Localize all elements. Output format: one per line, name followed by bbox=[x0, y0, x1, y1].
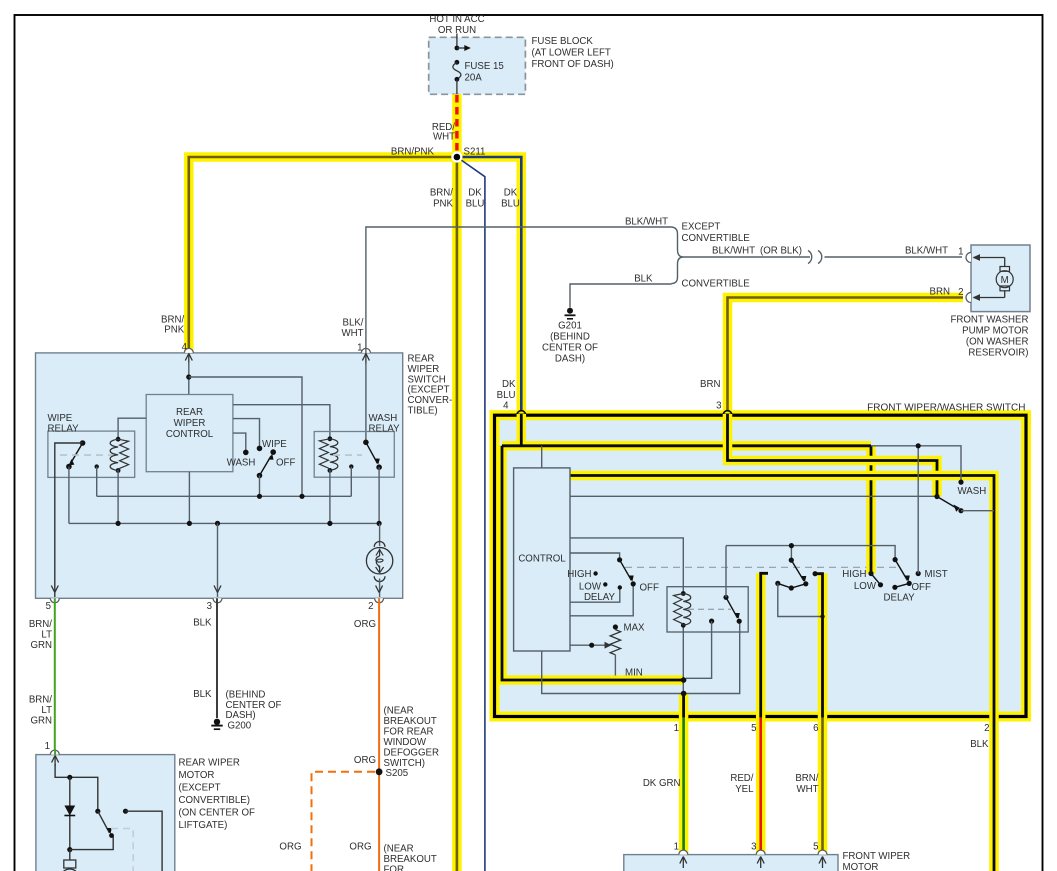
wash relay switch contact bbox=[363, 440, 369, 446]
svg-text:BLU: BLU bbox=[501, 198, 520, 209]
svg-text:WHT: WHT bbox=[433, 132, 455, 143]
svg-text:WHT: WHT bbox=[796, 784, 818, 795]
svg-text:BREAKOUT: BREAKOUT bbox=[384, 854, 437, 865]
svg-text:FUSE BLOCK: FUSE BLOCK bbox=[532, 36, 594, 47]
wipe relay mechanical link (dashed) bbox=[60, 454, 113, 456]
wire pin6 BRN/WHT highlighted bbox=[818, 573, 828, 855]
wire control left to wipe relay coil bbox=[118, 418, 146, 439]
wire BRN/PNK highlighted (S211 left, down to rear switch pin 4) bbox=[189, 157, 457, 352]
svg-text:(OR BLK): (OR BLK) bbox=[760, 246, 802, 257]
svg-text:ORG: ORG bbox=[349, 842, 371, 853]
svg-text:GRN: GRN bbox=[30, 716, 52, 727]
wash switch blade bbox=[934, 494, 939, 499]
node pin4 branch bbox=[186, 374, 191, 379]
svg-text:5: 5 bbox=[813, 842, 818, 853]
wire pin 4 down to control bbox=[188, 362, 190, 395]
WIPE / WASH / OFF switch contacts bbox=[243, 450, 249, 456]
lamp (switch illumination) bbox=[374, 542, 385, 547]
svg-text:(BEHIND: (BEHIND bbox=[226, 690, 266, 701]
front wiper motor box bbox=[624, 855, 838, 871]
svg-text:TIBLE): TIBLE) bbox=[408, 406, 438, 417]
rear motor M symbol (clipped at page bottom) bbox=[69, 850, 71, 860]
svg-text:WIPER: WIPER bbox=[174, 418, 206, 429]
svg-text:MAX: MAX bbox=[624, 623, 646, 634]
in-line connector bbox=[808, 251, 812, 264]
middle (park) switch bbox=[789, 558, 794, 563]
wire pin1 DK GRN highlighted: junction to front wiper motor bbox=[679, 694, 689, 856]
wire pin2 BLK highlighted: from control right across and down out of box bbox=[570, 476, 994, 871]
rear wiper switch box bbox=[36, 353, 403, 598]
front washer pump motor box bbox=[971, 245, 1030, 312]
svg-text:3: 3 bbox=[751, 842, 756, 853]
right main switch cluster bbox=[868, 571, 873, 576]
wire control right to WASH contact bbox=[233, 433, 246, 452]
wash relay coil bbox=[328, 436, 333, 441]
svg-text:MOTOR: MOTOR bbox=[179, 770, 215, 781]
svg-text:FRONT WIPER/WASHER SWITCH: FRONT WIPER/WASHER SWITCH bbox=[867, 403, 1025, 414]
pin 6 bump bbox=[818, 717, 827, 722]
wire common feed (relay contact / middle pivot / right pivot) bbox=[726, 546, 895, 598]
svg-text:WASH: WASH bbox=[227, 458, 256, 469]
wire control top to pin4 line bbox=[541, 446, 543, 468]
svg-text:CONTROL: CONTROL bbox=[166, 429, 214, 440]
svg-text:BREAKOUT: BREAKOUT bbox=[384, 716, 437, 727]
pin 3 exit arc bbox=[213, 598, 222, 603]
svg-text:RED/: RED/ bbox=[730, 773, 753, 784]
svg-text:(ON CENTER OF: (ON CENTER OF bbox=[179, 808, 256, 819]
pin 1 connector arc bbox=[966, 253, 971, 263]
wire BLK rear switch pin3 to G200 bbox=[216, 598, 218, 718]
svg-text:2: 2 bbox=[368, 601, 373, 612]
svg-text:BLK: BLK bbox=[193, 689, 212, 700]
svg-text:BRN/: BRN/ bbox=[29, 619, 52, 630]
svg-text:4: 4 bbox=[503, 401, 509, 412]
splice S211 bbox=[451, 151, 462, 162]
svg-text:FRONT WASHER: FRONT WASHER bbox=[950, 315, 1028, 326]
svg-text:OFF: OFF bbox=[912, 582, 931, 593]
svg-text:SWITCH: SWITCH bbox=[408, 374, 446, 385]
svg-text:LIFTGATE): LIFTGATE) bbox=[179, 820, 228, 831]
wire ORG dashed branch from S205 bbox=[312, 772, 376, 871]
interval relay switch bbox=[723, 595, 728, 600]
wipe relay blade bbox=[70, 443, 82, 464]
pin 4 bump bbox=[517, 411, 526, 416]
svg-text:WHT: WHT bbox=[341, 328, 363, 339]
svg-text:HIGH: HIGH bbox=[842, 569, 866, 580]
svg-text:OFF: OFF bbox=[640, 583, 659, 594]
front wiper/washer switch box bbox=[495, 415, 1027, 716]
svg-text:BLU: BLU bbox=[466, 198, 485, 209]
svg-text:BLK/WHT: BLK/WHT bbox=[905, 246, 948, 257]
svg-text:REAR WIPER: REAR WIPER bbox=[179, 758, 240, 769]
wire wash coil bottom to H2 bbox=[329, 470, 331, 523]
wire control bottom loop to interval relay blade contact bbox=[542, 621, 740, 693]
svg-text:EXCEPT: EXCEPT bbox=[682, 222, 721, 233]
svg-text:(EXCEPT: (EXCEPT bbox=[408, 385, 450, 396]
wire control to delay switch pivot bbox=[570, 553, 620, 560]
svg-text:ORG: ORG bbox=[354, 619, 376, 630]
rear wiper control box bbox=[146, 395, 233, 472]
svg-text:20A: 20A bbox=[465, 73, 483, 84]
svg-text:BRN/PNK: BRN/PNK bbox=[391, 147, 435, 158]
svg-text:DELAY: DELAY bbox=[584, 592, 616, 603]
svg-text:DK GRN: DK GRN bbox=[643, 778, 681, 789]
svg-text:CONVERTIBLE: CONVERTIBLE bbox=[682, 233, 751, 244]
node junctions on pin1 drop bbox=[682, 625, 684, 693]
pin 2 connector arc bbox=[966, 293, 971, 303]
ground G200 bbox=[214, 719, 220, 725]
svg-text:DEFOGGER: DEFOGGER bbox=[384, 748, 439, 759]
brace joining EXCEPT CONVERTIBLE / CONVERTIBLE bbox=[672, 227, 684, 284]
pin 3 exit arrow bbox=[214, 586, 221, 593]
wire control to DELAY contact bbox=[570, 588, 620, 603]
svg-text:BRN: BRN bbox=[700, 379, 720, 390]
svg-text:RESERVOIR): RESERVOIR) bbox=[968, 348, 1028, 359]
svg-text:BLU: BLU bbox=[497, 390, 516, 401]
pin 2 bump bbox=[990, 717, 999, 722]
svg-text:BLK/WHT: BLK/WHT bbox=[712, 246, 755, 257]
wire pin 1 down to wash relay contact bbox=[365, 362, 367, 442]
washer motor internal wiring pin2 bbox=[974, 297, 1005, 299]
diode branch bbox=[69, 777, 71, 849]
svg-text:BRN/: BRN/ bbox=[430, 187, 453, 198]
wire BRN highlighted (washer pump pin 2 left, down to front switch pin 3) bbox=[728, 298, 964, 446]
svg-text:3: 3 bbox=[207, 601, 212, 612]
interval relay mechanical link dashed bbox=[688, 608, 731, 610]
pin 5 bump bbox=[756, 717, 765, 722]
svg-text:DELAY: DELAY bbox=[884, 593, 916, 604]
svg-text:1: 1 bbox=[674, 723, 679, 734]
svg-text:BRN/: BRN/ bbox=[29, 695, 52, 706]
wire relay aux contact to pin1 junction bbox=[686, 621, 712, 678]
pin 1 entry arrow bbox=[365, 355, 367, 364]
svg-text:CONVERTIBLE): CONVERTIBLE) bbox=[179, 795, 250, 806]
svg-text:FRONT OF DASH): FRONT OF DASH) bbox=[532, 59, 614, 70]
wipe relay coil bbox=[116, 437, 121, 442]
delay switch (left cluster) bbox=[617, 557, 622, 562]
wire H1 bbox=[97, 495, 352, 497]
svg-text:LT: LT bbox=[41, 705, 52, 716]
svg-text:M: M bbox=[1001, 275, 1009, 286]
pin 1 entry arrow bbox=[54, 757, 56, 766]
svg-text:2: 2 bbox=[984, 723, 989, 734]
wire pin5 RED/YEL highlighted bbox=[756, 573, 766, 855]
svg-text:REAR: REAR bbox=[408, 354, 435, 365]
pin 1 entry arc bbox=[50, 750, 59, 755]
svg-text:BRN: BRN bbox=[930, 287, 950, 298]
svg-text:1: 1 bbox=[45, 741, 50, 752]
svg-text:1: 1 bbox=[958, 247, 963, 258]
mode switch blade with arrow bbox=[257, 473, 263, 479]
svg-text:FRONT WIPER: FRONT WIPER bbox=[843, 851, 911, 862]
svg-text:(NEAR: (NEAR bbox=[384, 706, 414, 717]
svg-text:BLK/WHT: BLK/WHT bbox=[625, 217, 668, 228]
svg-text:CONTROL: CONTROL bbox=[518, 554, 566, 565]
wire H2 bbox=[69, 522, 379, 524]
interval relay coil bbox=[681, 591, 686, 596]
svg-text:WASH: WASH bbox=[958, 486, 987, 497]
svg-text:WINDOW: WINDOW bbox=[384, 737, 427, 748]
svg-text:PNK: PNK bbox=[164, 325, 184, 336]
svg-text:DASH): DASH) bbox=[555, 354, 585, 365]
svg-text:REAR: REAR bbox=[176, 407, 203, 418]
wire H2 to pin 3 exit bbox=[217, 523, 219, 597]
svg-text:OFF: OFF bbox=[276, 458, 295, 469]
interval wiper relay box bbox=[667, 587, 748, 632]
svg-text:FOR REAR: FOR REAR bbox=[384, 727, 434, 738]
svg-text:SWITCH): SWITCH) bbox=[384, 758, 425, 769]
svg-text:DK: DK bbox=[504, 187, 518, 198]
wire control to interval relay coil bbox=[570, 538, 683, 594]
svg-text:(NEAR: (NEAR bbox=[384, 844, 414, 855]
pin 5 exit arrow bbox=[51, 586, 58, 593]
svg-text:RELAY: RELAY bbox=[369, 423, 401, 434]
wash relay aux contact C' bbox=[349, 464, 353, 468]
wire DK BLU thin (S211 diagonal down to bottom edge) bbox=[457, 157, 485, 871]
svg-text:FOR: FOR bbox=[384, 865, 404, 871]
pin 1 bump bbox=[679, 717, 688, 722]
svg-text:2: 2 bbox=[958, 287, 963, 298]
wire DK BLU highlighted (S211 right then down to front switch pin 4) bbox=[457, 157, 521, 446]
svg-text:1: 1 bbox=[674, 842, 679, 853]
svg-text:ORG: ORG bbox=[354, 755, 376, 766]
svg-text:HOT IN ACC: HOT IN ACC bbox=[429, 14, 484, 25]
wire pin4 feed highlighted: down, across, left loop, bottom, to pin 1 bbox=[502, 414, 871, 680]
svg-text:(BEHIND: (BEHIND bbox=[550, 332, 590, 343]
wire RED/WHT highlighted (fuse to S211) bbox=[452, 94, 462, 157]
motor M symbol bbox=[1000, 267, 1010, 272]
svg-text:BLK/: BLK/ bbox=[342, 318, 363, 329]
pin 3 entry arc bbox=[756, 850, 765, 855]
pin 5 entry arc bbox=[818, 850, 827, 855]
wash relay box bbox=[314, 432, 394, 478]
dashed mechanical linkage across switches bbox=[625, 566, 896, 568]
wire control bottom to H2 bbox=[188, 472, 190, 524]
wire control to OFF contact bbox=[570, 584, 633, 616]
delay pot MAX/MIN bbox=[613, 624, 618, 629]
svg-text:DK: DK bbox=[502, 379, 516, 390]
svg-text:WIPE: WIPE bbox=[262, 439, 287, 450]
wire blade pivot down to H1 bbox=[259, 476, 261, 497]
svg-text:S205: S205 bbox=[386, 768, 409, 779]
svg-text:5: 5 bbox=[751, 723, 756, 734]
wash relay blade with arrow bbox=[366, 442, 378, 463]
wire MIST / WASH feed bbox=[871, 446, 961, 574]
svg-text:BLK: BLK bbox=[634, 274, 653, 285]
wash relay mechanical link (dashed) bbox=[333, 454, 362, 456]
svg-text:S211: S211 bbox=[464, 147, 486, 158]
pin 2 exit arc bbox=[375, 598, 384, 603]
svg-text:HIGH: HIGH bbox=[567, 569, 591, 580]
wipe relay contact A and wire to pin 5 bbox=[80, 440, 86, 446]
wire BLK/WHT (rear switch pin 1 up and right to brace) bbox=[366, 227, 672, 352]
svg-text:BRN/: BRN/ bbox=[795, 773, 818, 784]
svg-text:(AT LOWER LEFT: (AT LOWER LEFT bbox=[532, 48, 611, 59]
fuse block box bbox=[429, 37, 526, 94]
svg-text:BLK: BLK bbox=[193, 618, 212, 629]
control box bbox=[514, 468, 570, 651]
wire fuse to box edge bbox=[456, 79, 458, 94]
svg-text:ORG: ORG bbox=[279, 842, 301, 853]
wire BLK/WHT (OR BLK) combined to washer pump pin 1 bbox=[684, 256, 811, 258]
pin 5 exit arc bbox=[50, 598, 59, 603]
pin 2 exit arrow bbox=[376, 586, 383, 593]
wire pin3 BRN highlighted inside: down, right, down to wash pivot bbox=[728, 414, 938, 497]
svg-text:WIPER: WIPER bbox=[408, 364, 440, 375]
svg-text:(EXCEPT: (EXCEPT bbox=[179, 783, 221, 794]
wire BRN/PNK highlighted (S211 down to bottom edge) bbox=[452, 157, 462, 871]
park switch blade bbox=[95, 809, 100, 814]
wipe relay aux contact C bbox=[95, 464, 99, 468]
rear motor internal wiring bbox=[55, 764, 98, 811]
wire stub into fuse block bbox=[456, 34, 458, 49]
svg-text:G200: G200 bbox=[228, 721, 252, 732]
diode bbox=[64, 806, 75, 816]
svg-text:(ON WASHER: (ON WASHER bbox=[966, 337, 1029, 348]
fuse F15 element bbox=[455, 60, 460, 65]
svg-text:FUSE 15: FUSE 15 bbox=[465, 61, 504, 72]
pin 1 entry arc bbox=[679, 850, 688, 855]
svg-text:PNK: PNK bbox=[433, 198, 453, 209]
svg-text:G201: G201 bbox=[558, 321, 582, 332]
wire park contact to pin6 bbox=[778, 583, 823, 616]
pin 3 bump bbox=[723, 411, 732, 416]
wire wipe coil bottom to H2 bbox=[117, 471, 119, 524]
pin 4 entry arrow bbox=[188, 355, 190, 364]
lamp wire from H2 down bbox=[379, 523, 381, 546]
svg-text:PUMP MOTOR: PUMP MOTOR bbox=[962, 326, 1028, 337]
svg-text:DK: DK bbox=[468, 187, 482, 198]
svg-text:LOW: LOW bbox=[579, 582, 602, 593]
wire BRN/LT GRN rear switch pin5 to rear wiper motor bbox=[54, 598, 56, 754]
wire control to wash switch pivot bbox=[570, 495, 937, 497]
wire pin4 branch right and down to H1 bbox=[189, 377, 302, 496]
pin 1 entry arc bbox=[361, 348, 370, 353]
svg-text:3: 3 bbox=[716, 401, 721, 412]
svg-text:6: 6 bbox=[813, 723, 818, 734]
wire blade contact B to H2 bbox=[68, 467, 70, 524]
ground G201 bbox=[567, 308, 573, 314]
wire control to pot wiper (arrow) bbox=[570, 644, 606, 646]
svg-text:YEL: YEL bbox=[735, 784, 754, 795]
svg-text:CONVERTIBLE: CONVERTIBLE bbox=[682, 279, 751, 290]
mechanical link dashed bbox=[111, 829, 133, 871]
wire wash common to pin 2 line bbox=[961, 510, 994, 512]
wire branch arrow bbox=[457, 47, 466, 49]
wire BLK (G201 up and right to brace) bbox=[570, 284, 672, 308]
splice S205 bbox=[376, 768, 383, 775]
node fuse feed bbox=[455, 46, 460, 51]
washer motor internal wiring pin1 bbox=[974, 257, 1005, 259]
svg-text:BLK: BLK bbox=[970, 739, 989, 750]
wipe relay box bbox=[48, 431, 135, 477]
svg-text:MOTOR: MOTOR bbox=[843, 862, 879, 871]
svg-text:RELAY: RELAY bbox=[48, 423, 80, 434]
wire ORG rear switch pin2 down bbox=[378, 598, 380, 871]
park switch second contact bbox=[123, 809, 128, 814]
svg-text:LT: LT bbox=[41, 630, 52, 641]
svg-text:MIST: MIST bbox=[925, 569, 948, 580]
svg-text:MIN: MIN bbox=[625, 668, 643, 679]
pin 4 entry arc bbox=[184, 348, 193, 353]
svg-text:CENTER OF: CENTER OF bbox=[542, 343, 598, 354]
wire wash blade contact down to H2 end bbox=[378, 467, 380, 523]
rear wiper motor box bbox=[36, 755, 175, 871]
svg-text:GRN: GRN bbox=[30, 640, 52, 651]
svg-text:5: 5 bbox=[46, 601, 51, 612]
svg-text:CONVER-: CONVER- bbox=[408, 395, 453, 406]
wire control right to WIPE contact bbox=[233, 419, 260, 449]
wire control right to wash relay coil bbox=[233, 405, 330, 439]
svg-text:LOW: LOW bbox=[854, 581, 877, 592]
